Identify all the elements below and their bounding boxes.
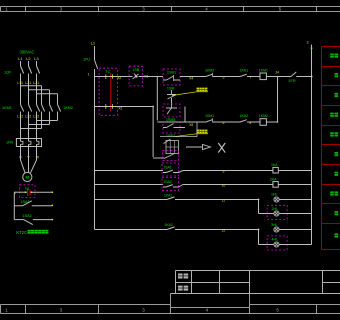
- top zone dividers: [25, 7, 27, 12]
- transformer red winding bar: [110, 73, 112, 112]
- contactor 1KM1 poles: [21, 105, 24, 112]
- svg-text:1SB2: 1SB2: [166, 134, 175, 138]
- column verticals: [156, 77, 158, 121]
- stray wire segment: [160, 136, 197, 138]
- breaker QF poles: [21, 66, 24, 74]
- bottom middle tall cell: [170, 294, 172, 314]
- svg-text:1KA1: 1KA1: [164, 193, 172, 197]
- svg-text:6: 6: [223, 121, 225, 125]
- contact box on rung2: [163, 122, 180, 133]
- svg-text:1KM1: 1KM1: [259, 69, 268, 73]
- title block text jiao-he: [178, 286, 183, 291]
- rung C lamps: [95, 199, 163, 201]
- svg-text:1KM2: 1KM2: [63, 106, 73, 110]
- svg-text:X4: X4: [189, 76, 193, 80]
- svg-text:L22: L22: [25, 114, 31, 118]
- svg-text:KT2C: KT2C: [16, 230, 27, 235]
- arrow annotation to X: [186, 146, 203, 148]
- title block text zhi-tu: [178, 274, 183, 279]
- left rail top with fuse: [94, 46, 96, 60]
- svg-text:1FR: 1FR: [6, 141, 13, 145]
- rung2: [157, 121, 205, 123]
- rung D lamps: [95, 229, 163, 231]
- rung1: [180, 76, 205, 78]
- lamp 4HL branch: [258, 230, 260, 245]
- coils common vertical: [277, 77, 279, 123]
- transformer TC dashed box: [99, 68, 117, 115]
- X mark: [218, 143, 225, 153]
- dashed box bottom column: [163, 151, 179, 161]
- svg-text:1: 1: [88, 73, 90, 77]
- latch contact box 1: [163, 104, 180, 117]
- svg-text:1SA2: 1SA2: [23, 214, 32, 218]
- contact box 1SB1: [163, 69, 180, 85]
- svg-text:1SB: 1SB: [167, 87, 175, 91]
- svg-text:1KM2: 1KM2: [205, 69, 214, 73]
- svg-text:10: 10: [222, 184, 226, 188]
- svg-text:L2: L2: [26, 56, 31, 61]
- phase wires upper: [20, 61, 22, 66]
- top control wire: [95, 76, 130, 78]
- svg-text:M: M: [26, 175, 30, 180]
- frame bottom inner line: [1, 304, 171, 306]
- svg-text:1KA2: 1KA2: [165, 223, 173, 227]
- winding break ticks: [105, 74, 107, 79]
- rung A 1SA1: [95, 170, 164, 172]
- terminal table green labels: [330, 54, 334, 58]
- svg-text:L1: L1: [91, 41, 96, 46]
- svg-text:1QF: 1QF: [4, 71, 12, 75]
- crossover wiring below contactors: [57, 112, 59, 121]
- crosshatch box: [166, 141, 179, 154]
- svg-text:12: 12: [222, 229, 226, 233]
- svg-text:L21: L21: [25, 81, 31, 85]
- thermal overload FR box: [16, 139, 41, 147]
- sensor dashed box 2SA: [19, 185, 35, 198]
- left rail: [94, 77, 96, 230]
- phase wires to contactors: [20, 85, 22, 105]
- sensor wire: [14, 191, 25, 193]
- svg-text:1KA2: 1KA2: [240, 114, 249, 118]
- svg-text:1FR: 1FR: [288, 79, 295, 83]
- branch wires to KM2: [21, 85, 42, 87]
- svg-text:L11: L11: [17, 81, 23, 85]
- stop button symbol: [129, 76, 132, 78]
- secondary wire: [95, 106, 119, 108]
- sensor red bars: [27, 189, 29, 196]
- contact below crosshatch: [164, 154, 175, 159]
- FR contact to rail: [278, 76, 292, 78]
- svg-text:9: 9: [223, 170, 225, 174]
- contact below: [164, 139, 171, 144]
- svg-text:1HL: 1HL: [271, 193, 277, 197]
- svg-text:4HL: 4HL: [272, 237, 278, 241]
- sheet frame outer border: [1, 6, 340, 8]
- svg-text:1KA1: 1KA1: [240, 69, 249, 73]
- wires converge to motor: [20, 154, 22, 161]
- svg-text:L3: L3: [34, 56, 39, 61]
- rung B 1SA2: [95, 184, 164, 186]
- terminal table red: [321, 47, 323, 250]
- frame top inner line: [1, 11, 340, 13]
- svg-text:380VAC: 380VAC: [20, 50, 35, 55]
- self-lock annotation 2: [197, 130, 200, 134]
- svg-text:2: 2: [307, 41, 309, 45]
- svg-text:1SB1: 1SB1: [167, 71, 176, 75]
- svg-text:1KM1: 1KM1: [205, 114, 214, 118]
- svg-text:8: 8: [249, 121, 251, 125]
- svg-text:X5: X5: [189, 123, 193, 127]
- wire to column: [142, 76, 163, 78]
- left vertical feed: [13, 192, 15, 219]
- svg-text:2HL: 2HL: [272, 207, 278, 211]
- phase wires into overload: [20, 118, 22, 139]
- svg-text:1KM2: 1KM2: [259, 114, 268, 118]
- title block: [176, 270, 340, 272]
- motor M circle: [23, 172, 32, 181]
- svg-text:1FU: 1FU: [83, 58, 90, 62]
- lamp 2HL branch: [258, 200, 260, 214]
- svg-text:TC: TC: [105, 70, 110, 74]
- svg-text:L32: L32: [33, 114, 39, 118]
- stop button 1SB dashed box: [129, 66, 142, 86]
- svg-text:L1: L1: [18, 56, 23, 61]
- bottom zone dividers: [25, 305, 27, 314]
- svg-text:L12: L12: [17, 114, 23, 118]
- svg-text:1KA: 1KA: [271, 163, 278, 167]
- svg-text:X1: X1: [119, 107, 123, 111]
- svg-text:1SB: 1SB: [132, 68, 140, 72]
- svg-text:7: 7: [249, 76, 251, 80]
- self-lock annotation 1: [197, 88, 200, 92]
- secondary to rung2: [118, 106, 153, 108]
- wires overload to motor: [20, 147, 22, 154]
- svg-text:3HL: 3HL: [271, 223, 277, 227]
- junction: [152, 106, 154, 108]
- svg-text:2SA1: 2SA1: [164, 165, 172, 169]
- svg-text:11: 11: [222, 199, 226, 203]
- svg-text:24: 24: [276, 71, 280, 75]
- contactor 1KM2 poles: [42, 105, 45, 112]
- svg-text:2KA: 2KA: [270, 177, 277, 181]
- svg-text:L31: L31: [33, 81, 39, 85]
- svg-text:1KM1: 1KM1: [2, 106, 12, 110]
- svg-text:2SA2: 2SA2: [164, 180, 172, 184]
- svg-text:X2: X2: [117, 76, 121, 80]
